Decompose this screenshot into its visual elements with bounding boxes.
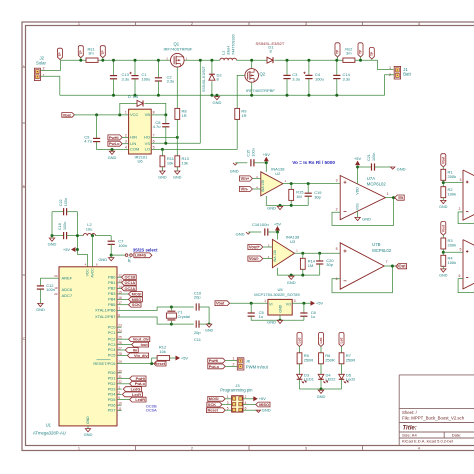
capacitor C6 1u bbox=[300, 312, 307, 314]
junction bbox=[250, 302, 253, 305]
capacitor C13 3.3u bbox=[110, 75, 117, 77]
svg-text:3.3u: 3.3u bbox=[122, 76, 130, 81]
svg-text:PwLo: PwLo bbox=[135, 382, 146, 386]
svg-text:PwLo: PwLo bbox=[209, 365, 220, 369]
svg-text:1u: 1u bbox=[311, 314, 315, 319]
svg-text:10k: 10k bbox=[159, 349, 165, 354]
wire C16 to V+ node bbox=[268, 231, 278, 233]
wire U7A VSS stem bbox=[357, 211, 359, 217]
junction bbox=[279, 319, 282, 322]
svg-text:C21: C21 bbox=[367, 154, 371, 161]
svg-text:30p: 30p bbox=[314, 194, 321, 199]
capacitor C9 4.7u bbox=[93, 137, 100, 139]
wire D5 to gnd bus bbox=[341, 379, 343, 389]
wire C21 to gnd flag bbox=[375, 166, 391, 168]
svg-text:1: 1 bbox=[389, 66, 391, 70]
capacitor C10 20p bbox=[196, 303, 199, 310]
junction bbox=[265, 161, 268, 164]
pin stub PC0 bbox=[117, 326, 122, 328]
ground under LEDs bbox=[318, 390, 323, 393]
svg-text:GND: GND bbox=[287, 280, 296, 285]
svg-text:10u: 10u bbox=[86, 226, 93, 231]
diode D1 bbox=[267, 57, 273, 63]
wire MCU gnd stub bbox=[87, 426, 89, 429]
svg-text:MCP1754-3002E_SOT89: MCP1754-3002E_SOT89 bbox=[254, 292, 300, 297]
diode D2 bbox=[209, 74, 215, 80]
test point TP5 bbox=[369, 47, 374, 59]
global label Reset at PC6 bbox=[154, 361, 166, 366]
label flag above R5 bbox=[297, 333, 302, 347]
wire PwHi to HIN bbox=[122, 136, 128, 138]
wire flag to R3 bbox=[442, 235, 444, 238]
resistor R8 1R bbox=[175, 108, 180, 119]
svg-text:4: 4 bbox=[245, 401, 247, 405]
wire R2 to gnd bbox=[442, 198, 444, 201]
svg-text:Vin_div: Vin_div bbox=[134, 354, 148, 358]
capacitor C14 3.3u bbox=[333, 74, 340, 76]
+5V at U3 bbox=[276, 227, 280, 231]
ground under U2 bbox=[277, 206, 282, 209]
svg-text:GND: GND bbox=[439, 205, 448, 209]
wire R6 to D4 bbox=[320, 364, 322, 375]
wire right vert bbox=[76, 212, 78, 255]
wire L2 to C7 bbox=[96, 235, 112, 237]
wire C7 bottom bbox=[110, 244, 112, 255]
junction bbox=[170, 323, 173, 326]
wire C8 top bbox=[165, 115, 167, 123]
wire J2 pin2 to rail bbox=[40, 60, 60, 70]
svg-text:4: 4 bbox=[418, 446, 420, 450]
svg-text:PC2: PC2 bbox=[108, 336, 117, 341]
wire C14 top bbox=[336, 60, 338, 75]
wire R15 top bbox=[290, 184, 292, 190]
junction bbox=[392, 196, 395, 199]
pin stub PD5 bbox=[117, 399, 122, 401]
junction bbox=[215, 94, 218, 97]
wire R8 to HO bbox=[176, 119, 178, 137]
svg-text:SCK: SCK bbox=[132, 303, 140, 307]
wire VCC to D4 bbox=[120, 103, 137, 115]
wire PC3 bbox=[122, 344, 132, 346]
wire C11 right bbox=[199, 323, 209, 325]
svg-text:Vbat: Vbat bbox=[216, 302, 225, 306]
global label Vin_div at PC5 bbox=[127, 353, 148, 358]
junction bbox=[157, 59, 160, 62]
svg-text:VSS: VSS bbox=[356, 203, 360, 211]
svg-text:3: 3 bbox=[227, 401, 229, 405]
junction bbox=[164, 142, 167, 145]
svg-text:INA 138: INA 138 bbox=[273, 250, 277, 262]
junction bbox=[101, 59, 104, 62]
junction bbox=[359, 59, 362, 62]
svg-text:+5V: +5V bbox=[274, 221, 282, 226]
wire Q2 drain bbox=[251, 60, 253, 68]
svg-text:20p: 20p bbox=[194, 294, 201, 299]
wire C9 top bbox=[96, 115, 98, 138]
svg-text:100n: 100n bbox=[64, 198, 68, 206]
current sense amp U3 INA138 bbox=[272, 239, 294, 267]
wire D2 anode to return bbox=[211, 81, 213, 95]
pin stub PD7 bbox=[117, 410, 122, 412]
ground under R2 bbox=[441, 200, 446, 203]
svg-text:100n: 100n bbox=[260, 222, 269, 227]
ground under U7A bbox=[355, 217, 360, 220]
svg-text:Q2: Q2 bbox=[260, 71, 266, 76]
svg-text:3: 3 bbox=[125, 140, 127, 144]
svg-text:PD1: PD1 bbox=[108, 376, 117, 381]
svg-text:SCK: SCK bbox=[208, 403, 216, 407]
junction bbox=[301, 252, 304, 255]
svg-text:5: 5 bbox=[459, 248, 461, 252]
svg-text:PB5: PB5 bbox=[108, 302, 116, 307]
junction bbox=[301, 274, 304, 277]
wire C8 bottom to VS bbox=[165, 127, 167, 144]
wire PB5 bbox=[122, 304, 129, 306]
wire Rs2 to J1 pin1 bbox=[355, 60, 394, 69]
svg-text:LedY: LedY bbox=[132, 393, 142, 397]
wire switch node to VS bbox=[199, 60, 201, 143]
junction bbox=[110, 254, 113, 257]
test point TP2 bbox=[100, 46, 105, 58]
global label at JP1 bbox=[134, 253, 152, 258]
svg-text:LedG: LedG bbox=[131, 388, 141, 392]
wire AREF stub bbox=[54, 277, 60, 279]
wire D4 to VB bbox=[145, 103, 166, 115]
junction bbox=[307, 94, 310, 97]
wire R15 bottom bbox=[290, 200, 292, 205]
svg-text:2: 2 bbox=[336, 208, 338, 212]
wire PC2 bbox=[122, 338, 129, 340]
wire C22 right bbox=[67, 211, 78, 213]
svg-text:IIn: IIn bbox=[133, 348, 138, 352]
svg-text:1: 1 bbox=[227, 395, 229, 399]
wire VCC vert bbox=[77, 255, 87, 267]
svg-text:3m: 3m bbox=[346, 50, 352, 55]
pin stub PC3 bbox=[117, 344, 122, 346]
wire C15 to V+ node bbox=[254, 162, 266, 164]
wire C14 bottom bbox=[336, 79, 338, 96]
wire U3 output to U7B bbox=[295, 252, 341, 254]
svg-text:PB2: PB2 bbox=[108, 286, 116, 291]
wire op4 feedback bbox=[458, 279, 474, 293]
svg-text:Vbat: Vbat bbox=[442, 156, 446, 164]
pin stub PD6 bbox=[117, 404, 122, 406]
wire C19 bottom bbox=[307, 196, 309, 205]
capacitor C4 100u bbox=[305, 74, 312, 76]
capacitor C2 3.3u bbox=[155, 77, 162, 79]
wire PC5 bbox=[122, 354, 128, 356]
global label MOSI at J3 bbox=[208, 396, 225, 401]
title block bbox=[399, 375, 474, 446]
resistor Rs1 3m bbox=[86, 58, 98, 62]
svg-text:GND: GND bbox=[262, 408, 271, 413]
capacitor C19 30p bbox=[305, 192, 312, 194]
test point flag bbox=[58, 48, 63, 59]
svg-text:GND: GND bbox=[36, 307, 45, 312]
svg-text:PD3: PD3 bbox=[108, 386, 117, 391]
svg-text:C15: C15 bbox=[246, 150, 250, 157]
svg-text:PC3: PC3 bbox=[108, 342, 117, 347]
svg-text:3: 3 bbox=[459, 178, 461, 182]
wire VS to switch node bbox=[151, 142, 200, 144]
svg-text:MOSI: MOSI bbox=[132, 292, 142, 296]
global label Vout_div at PC2 bbox=[129, 337, 150, 342]
wire R11 top bbox=[161, 149, 163, 155]
junction bbox=[290, 182, 293, 185]
+5V at J3 bbox=[254, 397, 258, 401]
svg-text:1: 1 bbox=[233, 357, 235, 361]
junction bbox=[356, 166, 359, 169]
wire C12 top bbox=[39, 278, 41, 285]
wire C4 top bbox=[308, 60, 310, 75]
wire VB bbox=[151, 114, 166, 116]
svg-text:+5V: +5V bbox=[63, 247, 71, 252]
label flag above R6 bbox=[319, 333, 324, 347]
svg-text:MISO: MISO bbox=[259, 403, 269, 407]
inductor L2 10u bbox=[83, 234, 95, 236]
pin stub PB5 bbox=[117, 304, 122, 306]
wire divider2 tap to op-amp bbox=[443, 251, 463, 253]
wire R7 to D5 bbox=[341, 364, 343, 375]
wire TP1 stub bbox=[80, 58, 82, 61]
svg-text:PD0: PD0 bbox=[108, 370, 117, 375]
junction bbox=[161, 148, 164, 151]
junction bbox=[210, 94, 213, 97]
wire PD2 bbox=[122, 383, 130, 385]
junction bbox=[208, 323, 211, 326]
wire R12 right bbox=[170, 357, 177, 359]
svg-text:GND: GND bbox=[362, 217, 371, 222]
junction bbox=[134, 59, 137, 62]
wire gnd stub C7 bbox=[110, 255, 112, 258]
svg-text:30p: 30p bbox=[326, 262, 333, 267]
svg-text:D4: D4 bbox=[133, 94, 139, 99]
svg-text:PD2: PD2 bbox=[108, 381, 117, 386]
pin stub PC5 bbox=[117, 354, 122, 356]
wire U3 gnd bus bbox=[278, 268, 320, 275]
svg-text:Vout+: Vout+ bbox=[249, 244, 261, 249]
wire Vout+ to U3 bbox=[263, 246, 273, 248]
wire SCK to J3 bbox=[222, 404, 232, 406]
wire C4 bottom bbox=[308, 79, 310, 96]
junction bbox=[95, 113, 98, 116]
wire gnd stub left bbox=[51, 236, 53, 238]
svg-text:+5V: +5V bbox=[263, 152, 271, 157]
pin stub PB1 bbox=[117, 282, 122, 284]
svg-text:Title:: Title: bbox=[403, 426, 417, 432]
junction bbox=[176, 136, 179, 139]
wire V+ stem U2 bbox=[265, 163, 267, 172]
svg-text:10k: 10k bbox=[167, 160, 173, 165]
capacitor C8 4.7u bbox=[162, 123, 169, 125]
junction bbox=[286, 94, 289, 97]
wire C22 left bbox=[52, 211, 63, 213]
wire C3 bottom bbox=[286, 79, 288, 96]
capacitor C15 100n bbox=[250, 159, 252, 166]
wire to JP1 bbox=[111, 254, 125, 256]
svg-text:JP1: JP1 bbox=[128, 257, 132, 263]
junction bbox=[307, 59, 310, 62]
svg-text:100n: 100n bbox=[63, 222, 67, 230]
global label Reset at J3 bbox=[207, 408, 226, 413]
pin stub PC1 bbox=[117, 332, 122, 334]
wire Vbat to IR2101 VCC bbox=[74, 114, 128, 116]
wire U5 output bbox=[292, 302, 311, 304]
resistor R12 10k bbox=[157, 356, 170, 361]
wire R11 to gnd bbox=[161, 167, 163, 171]
svg-text:LED2: LED2 bbox=[326, 377, 337, 382]
wire J3 to MISO bbox=[243, 404, 256, 406]
junction bbox=[118, 113, 121, 116]
pin stub PD0 bbox=[117, 372, 122, 374]
svg-text:20: 20 bbox=[54, 274, 58, 278]
ground under R13 bbox=[175, 171, 180, 174]
wire Q2 source to return bbox=[251, 82, 253, 95]
wire C5 top bbox=[250, 303, 252, 312]
svg-text:3: 3 bbox=[336, 178, 338, 182]
global label Vbat bbox=[62, 113, 75, 118]
global label LedY at PD4 bbox=[122, 392, 142, 397]
svg-text:4: 4 bbox=[125, 146, 127, 150]
svg-text:2: 2 bbox=[191, 22, 193, 26]
test point TP1 bbox=[78, 46, 83, 58]
svg-text:PWM in/out: PWM in/out bbox=[246, 364, 269, 369]
wire U2 gnd stub bbox=[279, 205, 281, 206]
svg-text:KiCad E.D.A. kicad 5.0.2-bet: KiCad E.D.A. kicad 5.0.2-bet bbox=[402, 438, 454, 443]
svg-text:7: 7 bbox=[386, 260, 388, 264]
label flag above R3 bbox=[441, 222, 446, 236]
svg-text:GND: GND bbox=[86, 416, 90, 424]
svg-text:Reset: Reset bbox=[208, 409, 219, 413]
resistor R4 100k bbox=[441, 255, 446, 266]
junction bbox=[150, 362, 153, 365]
wire TP2 stub bbox=[102, 58, 104, 61]
junction bbox=[134, 94, 137, 97]
wire C1 bottom bbox=[134, 79, 136, 95]
junction bbox=[91, 234, 94, 237]
wire C1 top bbox=[134, 60, 136, 75]
svg-text:3: 3 bbox=[305, 22, 307, 26]
svg-text:File: MPPT_Buck_Boost_V2.sch: File: MPPT_Buck_Boost_V2.sch bbox=[402, 416, 465, 421]
global label LedR at PD5 bbox=[130, 397, 146, 402]
wire TP3 stub bbox=[337, 57, 339, 60]
wire GND stub near D2 bbox=[216, 95, 218, 96]
resistor R14 1M bbox=[300, 258, 305, 269]
pin stub PD1 bbox=[117, 377, 122, 379]
wire PB3 bbox=[122, 293, 129, 295]
svg-text:U1: U1 bbox=[46, 422, 52, 427]
svg-text:7447709330: 7447709330 bbox=[232, 34, 236, 55]
svg-text:L1: L1 bbox=[222, 51, 226, 55]
svg-text:Date:: Date: bbox=[452, 433, 462, 438]
svg-text:1R: 1R bbox=[182, 113, 187, 118]
wire XTAL1 to C10 bbox=[122, 307, 194, 311]
svg-text:PB4: PB4 bbox=[108, 297, 116, 302]
+5V at U2 bbox=[264, 157, 268, 161]
transistor Q2 IRF740 bbox=[245, 69, 259, 83]
svg-text:MCP6L02: MCP6L02 bbox=[372, 248, 392, 253]
global label LedG at PD3 bbox=[123, 387, 141, 392]
wire op4 minus bbox=[458, 278, 463, 280]
ground flag at C21 bbox=[391, 167, 395, 169]
svg-text:HO: HO bbox=[144, 135, 150, 140]
wire Reset to J3 bbox=[225, 409, 231, 411]
global label at PB1 bbox=[122, 280, 137, 285]
svg-text:LO: LO bbox=[145, 147, 150, 152]
wire flag to R6 bbox=[320, 347, 322, 353]
svg-text:100n: 100n bbox=[46, 287, 55, 292]
svg-text:3.3u: 3.3u bbox=[167, 79, 175, 84]
svg-text:+5V: +5V bbox=[354, 156, 362, 161]
svg-text:Led: Led bbox=[298, 338, 302, 344]
test point TP3 bbox=[335, 43, 340, 57]
wire R9 to LO bbox=[236, 119, 238, 149]
svg-text:GND: GND bbox=[278, 304, 282, 312]
RESET overbar bbox=[97, 359, 111, 361]
capacitor C7 100n bbox=[108, 240, 115, 242]
svg-text:PB1: PB1 bbox=[108, 280, 116, 285]
wire RESET bbox=[122, 363, 154, 365]
wire to J6 pin1 bbox=[225, 360, 237, 362]
wire TP5 stub bbox=[371, 59, 373, 60]
wire D1 to Rs2 bbox=[275, 59, 343, 61]
label flag above R1 bbox=[441, 154, 446, 167]
wire C9 to COM bbox=[97, 142, 129, 150]
junction bbox=[442, 181, 445, 184]
svg-text:C11: C11 bbox=[194, 337, 202, 342]
current sense amp U2 INA138 bbox=[261, 172, 283, 196]
svg-text:3m: 3m bbox=[88, 50, 94, 55]
svg-text:LIN: LIN bbox=[130, 141, 136, 146]
wire U7A VDD stem bbox=[357, 167, 359, 184]
wire PD1 bbox=[122, 377, 130, 379]
global label Vbat at U5 bbox=[215, 301, 230, 306]
ground under C9 bbox=[109, 151, 114, 154]
junction bbox=[51, 234, 54, 237]
resistor R6 250R bbox=[319, 353, 324, 364]
junction bbox=[76, 248, 79, 251]
wire Vout- to U3 bbox=[263, 258, 273, 260]
svg-text:100u: 100u bbox=[315, 76, 324, 81]
svg-text:PwHi: PwHi bbox=[209, 359, 218, 363]
svg-text:AREF: AREF bbox=[62, 275, 73, 280]
wire U7A feedback bbox=[332, 198, 394, 226]
wire VIn+ to U2 bbox=[252, 178, 260, 180]
svg-text:100k: 100k bbox=[448, 191, 457, 196]
capacitor C16 100n bbox=[264, 228, 266, 235]
wire C16 left bbox=[248, 231, 261, 233]
connector J2 bbox=[34, 68, 40, 80]
wire C12 bottom bbox=[39, 289, 41, 303]
svg-text:100u: 100u bbox=[142, 76, 151, 81]
svg-text:GND: GND bbox=[98, 257, 107, 262]
solder jumper JP1 bbox=[125, 254, 128, 257]
svg-text:OC1B: OC1B bbox=[125, 276, 136, 280]
wire flag to R7 bbox=[341, 347, 343, 353]
svg-text:GND: GND bbox=[205, 329, 214, 333]
wire LED gnd stub bbox=[320, 389, 322, 390]
junction bbox=[335, 94, 338, 97]
wire D2 cathode bbox=[211, 60, 213, 73]
svg-text:IRF740STRPBF: IRF740STRPBF bbox=[164, 47, 193, 52]
global label VIn- bbox=[240, 186, 253, 191]
wire V+ stem U3 bbox=[277, 232, 279, 240]
svg-text:XTAL2/PB7: XTAL2/PB7 bbox=[95, 314, 116, 319]
svg-text:Sheet: /: Sheet: / bbox=[402, 410, 418, 415]
svg-text:VIn+: VIn+ bbox=[241, 176, 250, 181]
svg-text:ATmega328P-AU: ATmega328P-AU bbox=[33, 430, 66, 435]
wire J3 to +5V bbox=[243, 398, 254, 400]
